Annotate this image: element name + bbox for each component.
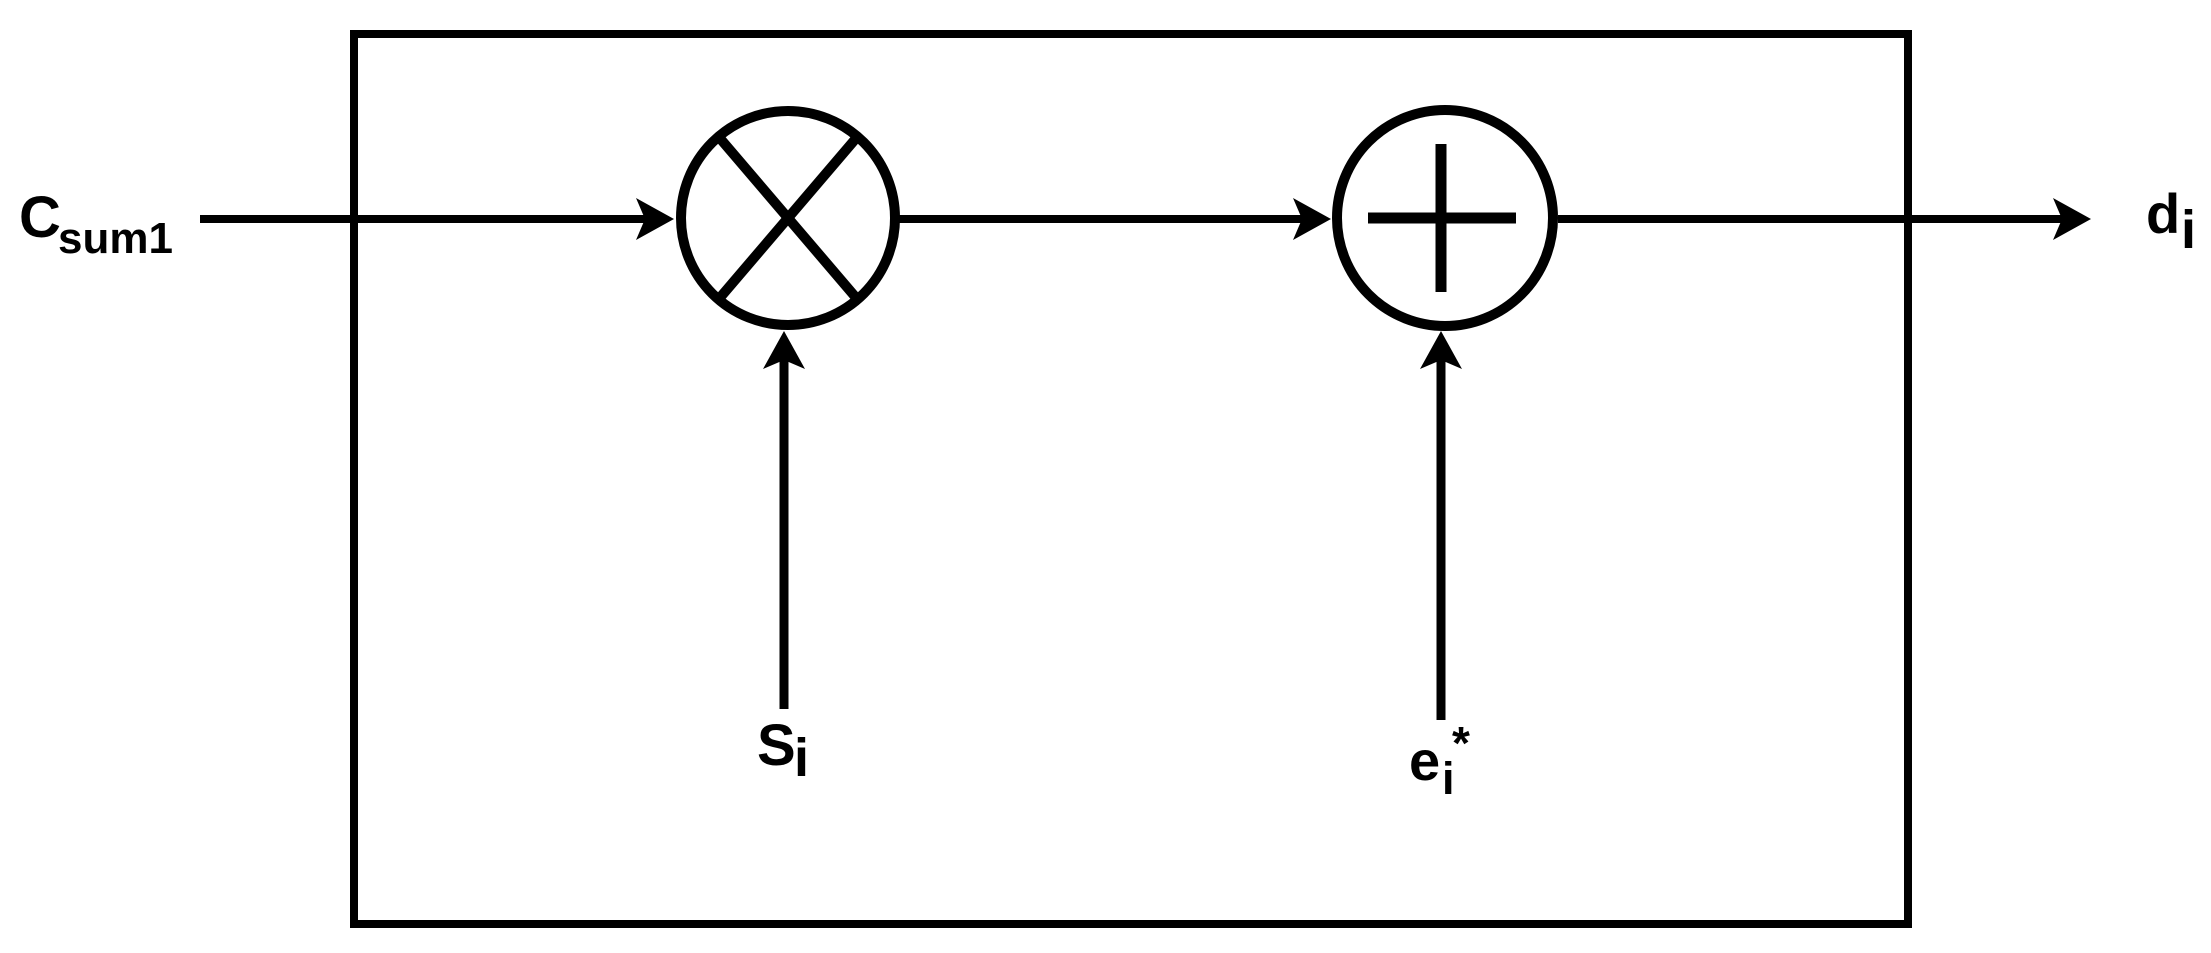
arrowhead: ei* into adder — [1420, 331, 1462, 369]
svg-text:*: * — [1452, 717, 1470, 769]
adder U1 (circle) — [1337, 110, 1553, 326]
node label ei* — [1409, 717, 1470, 804]
svg-text:i: i — [2181, 200, 2196, 260]
svg-text:C: C — [19, 185, 61, 250]
svg-text:sum1: sum1 — [58, 214, 173, 263]
node label di — [2146, 182, 2196, 260]
arrowhead: si into multiplier — [763, 331, 805, 369]
arrowhead: input into multiplier — [636, 198, 674, 240]
arrowhead: into adder — [1293, 198, 1331, 240]
svg-text:e: e — [1409, 729, 1440, 792]
wire: adder to output — [1558, 215, 2065, 223]
wire: multiplier to adder — [894, 215, 1305, 223]
wire: ei* up into adder — [1437, 357, 1446, 720]
multiplier M1 (circle) — [681, 111, 895, 325]
svg-text:S: S — [757, 713, 796, 778]
wire: input Csum1 into multiplier — [200, 215, 648, 223]
multiplier M1 X stroke 2 — [718, 136, 858, 300]
svg-text:d: d — [2146, 182, 2180, 245]
adder U1 plus horizontal stroke — [1368, 213, 1516, 224]
node label si — [757, 713, 809, 788]
svg-text:i: i — [794, 728, 809, 788]
node label Csum1 — [19, 185, 173, 263]
adder U1 plus vertical stroke — [1436, 144, 1447, 292]
outer block box — [354, 34, 1908, 924]
arrowhead: output — [2053, 198, 2091, 240]
multiplier M1 X stroke 1 — [718, 136, 858, 300]
wire: si up into multiplier — [780, 357, 789, 709]
